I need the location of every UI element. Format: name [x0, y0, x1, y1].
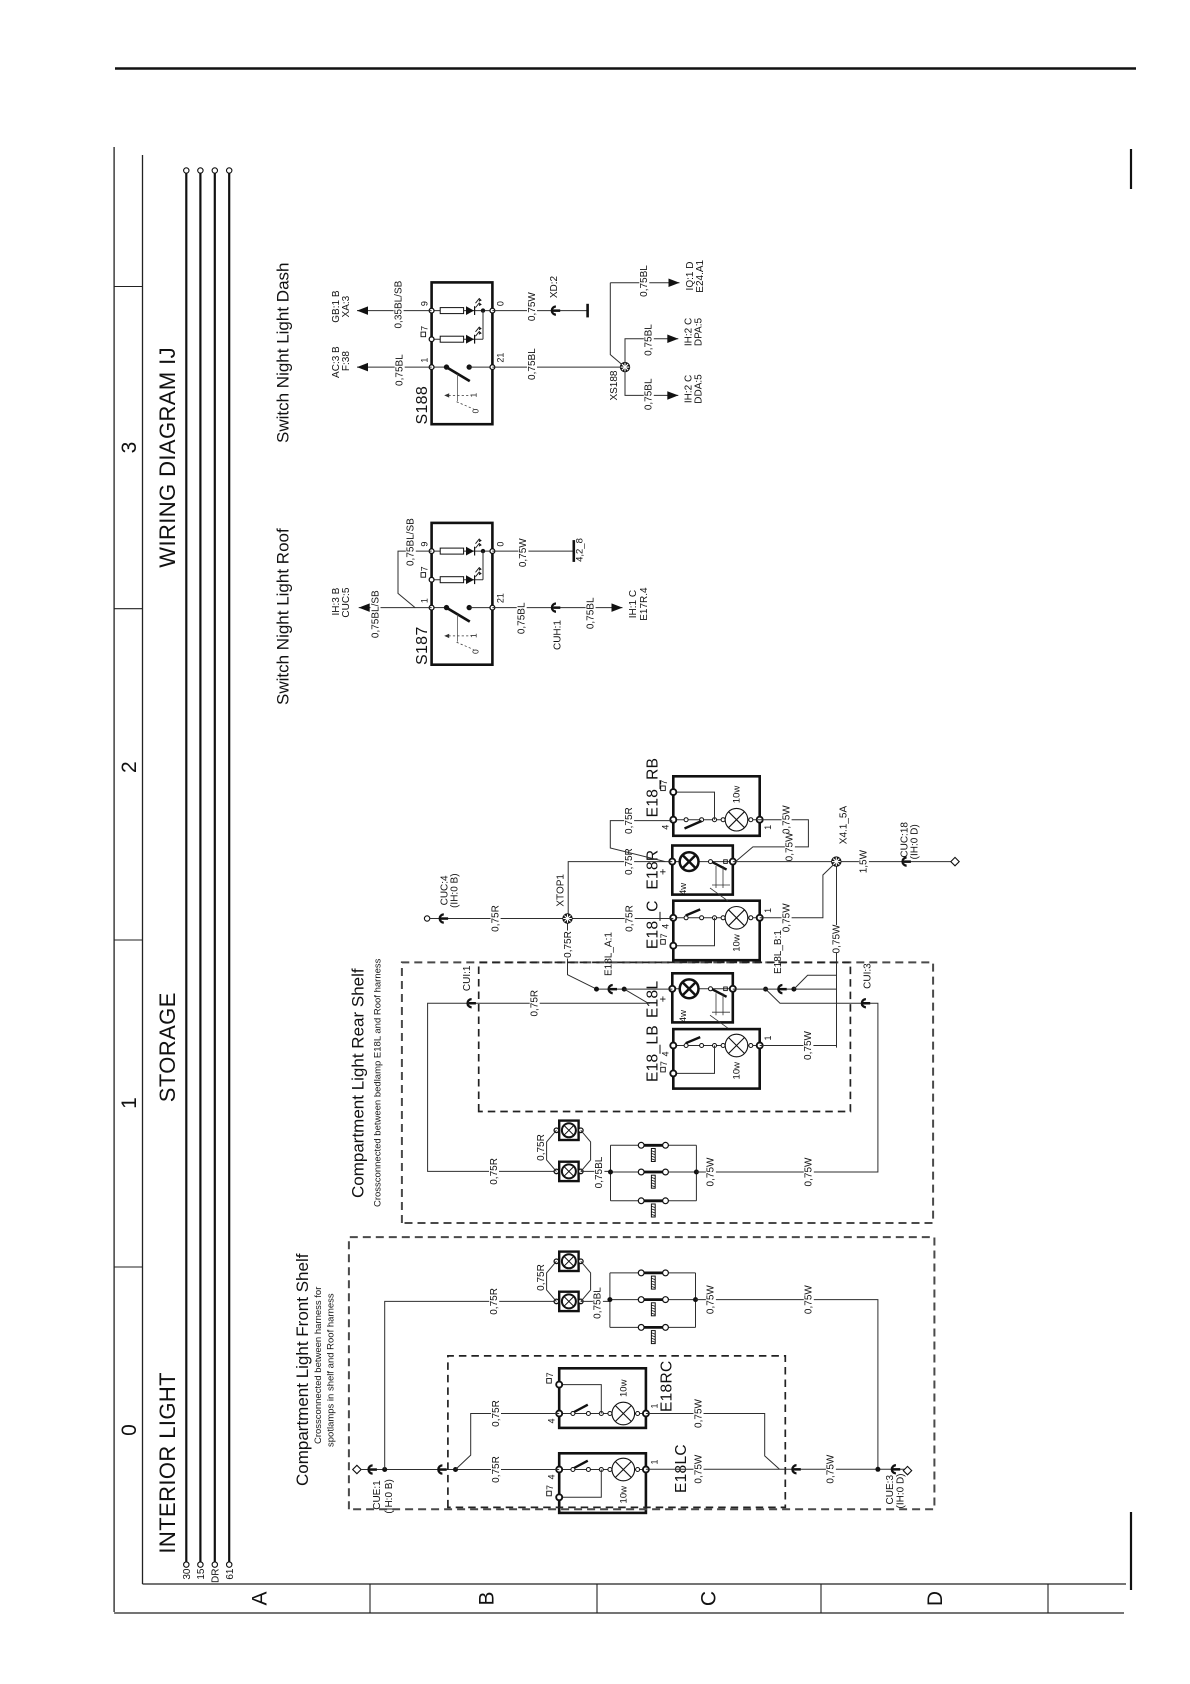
svg-text:0: 0 — [496, 301, 506, 306]
svg-text:Switch Night Light Dash: Switch Night Light Dash — [274, 263, 293, 443]
svg-text:4w: 4w — [678, 883, 689, 895]
svg-text:10w: 10w — [732, 934, 743, 952]
svg-text:0,75R: 0,75R — [625, 905, 636, 932]
svg-text:21: 21 — [496, 353, 506, 363]
svg-text:Compartment Light Front Shelf: Compartment Light Front Shelf — [293, 1253, 312, 1486]
svg-text:S187: S187 — [414, 626, 431, 665]
svg-text:7: 7 — [545, 1372, 555, 1377]
svg-text:7: 7 — [659, 780, 669, 785]
svg-text:1: 1 — [469, 392, 479, 397]
svg-text:IH:1 C: IH:1 C — [628, 590, 639, 618]
svg-text:E18_LB: E18_LB — [645, 1025, 662, 1082]
svg-text:10w: 10w — [732, 786, 743, 804]
svg-text:DR: DR — [210, 1569, 221, 1583]
svg-text:1: 1 — [763, 908, 773, 913]
svg-text:Switch Night Light Roof: Switch Night Light Roof — [274, 528, 293, 705]
svg-text:DDA:5: DDA:5 — [694, 374, 705, 404]
svg-text:0,75W: 0,75W — [804, 1157, 815, 1186]
svg-text:CUI:3: CUI:3 — [863, 963, 874, 989]
svg-text:E18RC: E18RC — [659, 1361, 676, 1412]
svg-text:(IH:0 D): (IH:0 D) — [896, 1474, 907, 1509]
svg-text:9: 9 — [420, 301, 430, 306]
svg-text:Crossconnected between harness: Crossconnected between harness for — [313, 1287, 324, 1444]
svg-text:1: 1 — [763, 1035, 773, 1040]
svg-text:0,75W: 0,75W — [826, 1454, 837, 1483]
svg-text:2: 2 — [118, 761, 141, 773]
svg-text:0,75BL: 0,75BL — [517, 602, 528, 634]
svg-text:XS188: XS188 — [609, 370, 620, 400]
svg-text:0: 0 — [118, 1424, 141, 1436]
svg-text:0,75BL: 0,75BL — [594, 1156, 605, 1188]
svg-text:0,75BL: 0,75BL — [527, 348, 538, 380]
svg-text:4,2_8: 4,2_8 — [575, 538, 586, 562]
svg-text:XD:2: XD:2 — [549, 275, 560, 298]
svg-text:0,75W: 0,75W — [706, 1157, 717, 1186]
svg-text:0,75W: 0,75W — [693, 1454, 704, 1483]
svg-text:CUI:1: CUI:1 — [462, 965, 473, 991]
svg-text:21: 21 — [496, 593, 506, 603]
svg-text:E18_C: E18_C — [645, 900, 662, 949]
svg-text:7: 7 — [545, 1485, 555, 1490]
svg-text:+: + — [658, 869, 670, 875]
svg-text:1: 1 — [420, 358, 430, 363]
svg-text:0,35BL/SB: 0,35BL/SB — [393, 280, 404, 328]
svg-text:E18_RB: E18_RB — [645, 758, 662, 818]
svg-text:1: 1 — [469, 633, 479, 638]
svg-text:0,75R: 0,75R — [530, 990, 541, 1017]
svg-text:(IH:0 B): (IH:0 B) — [450, 873, 461, 907]
svg-text:D: D — [924, 1591, 947, 1606]
svg-text:0,75W: 0,75W — [803, 1030, 814, 1059]
svg-text:10w: 10w — [732, 1062, 743, 1080]
svg-text:10w: 10w — [619, 1486, 630, 1504]
svg-text:(IH:0 D): (IH:0 D) — [910, 824, 921, 859]
svg-text:Compartment Light Rear Shelf: Compartment Light Rear Shelf — [349, 968, 368, 1198]
svg-text:7: 7 — [659, 1061, 669, 1066]
svg-text:61: 61 — [225, 1568, 236, 1580]
svg-text:3: 3 — [118, 442, 141, 454]
svg-text:0: 0 — [471, 408, 481, 413]
svg-text:0,75BL: 0,75BL — [644, 378, 655, 410]
svg-text:15: 15 — [196, 1568, 207, 1580]
svg-text:CUE:1: CUE:1 — [372, 1480, 383, 1510]
svg-text:A: A — [248, 1591, 271, 1605]
svg-text:4: 4 — [661, 924, 671, 929]
svg-text:0,75R: 0,75R — [490, 905, 501, 932]
svg-text:4w: 4w — [678, 1010, 689, 1022]
svg-text:WIRING DIAGRAM IJ: WIRING DIAGRAM IJ — [155, 347, 180, 568]
svg-text:0,75R: 0,75R — [536, 1264, 547, 1291]
svg-text:0,75W: 0,75W — [781, 805, 792, 834]
svg-text:1: 1 — [650, 1403, 660, 1408]
svg-text:B: B — [475, 1591, 498, 1605]
svg-text:0: 0 — [471, 649, 481, 654]
svg-text:0,75BL: 0,75BL — [644, 324, 655, 356]
svg-text:0,75W: 0,75W — [693, 1398, 704, 1427]
svg-text:0,75W: 0,75W — [527, 292, 538, 321]
svg-text:E18L_A:1: E18L_A:1 — [603, 932, 614, 976]
svg-text:Crossconnected between bedlamp: Crossconnected between bedlamp E18L and … — [373, 958, 384, 1207]
svg-text:30: 30 — [182, 1568, 193, 1580]
svg-text:0,75R: 0,75R — [536, 1134, 547, 1161]
svg-text:E18L_B:1: E18L_B:1 — [773, 930, 784, 974]
svg-text:XTOP1: XTOP1 — [556, 874, 567, 907]
svg-text:0,75R: 0,75R — [491, 1456, 502, 1483]
svg-text:4: 4 — [547, 1475, 557, 1480]
svg-text:1: 1 — [420, 598, 430, 603]
svg-text:0,75W: 0,75W — [706, 1285, 717, 1314]
svg-text:1: 1 — [650, 1459, 660, 1464]
svg-text:1: 1 — [118, 1097, 141, 1109]
svg-text:spotlamps in shelf and Roof ha: spotlamps in shelf and Roof harness — [326, 1293, 337, 1447]
svg-text:0,75W: 0,75W — [781, 903, 792, 932]
svg-text:0,75BL: 0,75BL — [585, 597, 596, 629]
svg-text:7: 7 — [659, 933, 669, 938]
svg-text:1: 1 — [763, 825, 773, 830]
svg-text:F:38: F:38 — [341, 351, 352, 371]
svg-text:0,75R: 0,75R — [491, 1400, 502, 1427]
svg-text:E24.A1: E24.A1 — [695, 259, 706, 292]
svg-text:0,75R: 0,75R — [489, 1288, 500, 1315]
svg-text:0,75R: 0,75R — [624, 807, 635, 834]
svg-text:CUC:5: CUC:5 — [341, 587, 352, 617]
svg-text:S188: S188 — [414, 386, 431, 425]
svg-text:0,75BL: 0,75BL — [593, 1287, 604, 1319]
svg-text:0,75W: 0,75W — [831, 924, 842, 953]
svg-text:STORAGE: STORAGE — [155, 992, 180, 1102]
svg-text:0: 0 — [496, 542, 506, 547]
svg-text:9: 9 — [420, 542, 430, 547]
svg-text:E18LC: E18LC — [673, 1444, 690, 1493]
svg-text:XA:3: XA:3 — [341, 295, 352, 317]
svg-text:0,75BL/SB: 0,75BL/SB — [406, 518, 417, 566]
svg-text:E17R.4: E17R.4 — [639, 587, 650, 621]
svg-text:1,5W: 1,5W — [859, 849, 870, 873]
svg-text:INTERIOR LIGHT: INTERIOR LIGHT — [155, 1372, 180, 1554]
svg-text:DPA:5: DPA:5 — [694, 317, 705, 346]
svg-text:0,75W: 0,75W — [518, 538, 529, 567]
svg-text:0,75W: 0,75W — [804, 1285, 815, 1314]
svg-text:C: C — [698, 1591, 721, 1606]
svg-text:CUH:1: CUH:1 — [553, 620, 564, 650]
svg-text:0,75BL/SB: 0,75BL/SB — [370, 590, 381, 638]
svg-text:0,75R: 0,75R — [563, 931, 574, 958]
svg-text:+: + — [658, 996, 670, 1002]
svg-text:0,75R: 0,75R — [489, 1158, 500, 1185]
svg-text:0,75BL: 0,75BL — [395, 354, 406, 386]
svg-text:4: 4 — [661, 825, 671, 830]
svg-text:10w: 10w — [619, 1379, 630, 1397]
svg-text:4: 4 — [661, 1052, 671, 1057]
svg-text:X4.1_5A: X4.1_5A — [839, 806, 850, 845]
svg-text:0,75W: 0,75W — [785, 832, 796, 861]
svg-text:7: 7 — [420, 566, 430, 571]
svg-text:4: 4 — [547, 1419, 557, 1424]
svg-text:0,75BL: 0,75BL — [639, 265, 650, 297]
svg-text:7: 7 — [420, 326, 430, 331]
